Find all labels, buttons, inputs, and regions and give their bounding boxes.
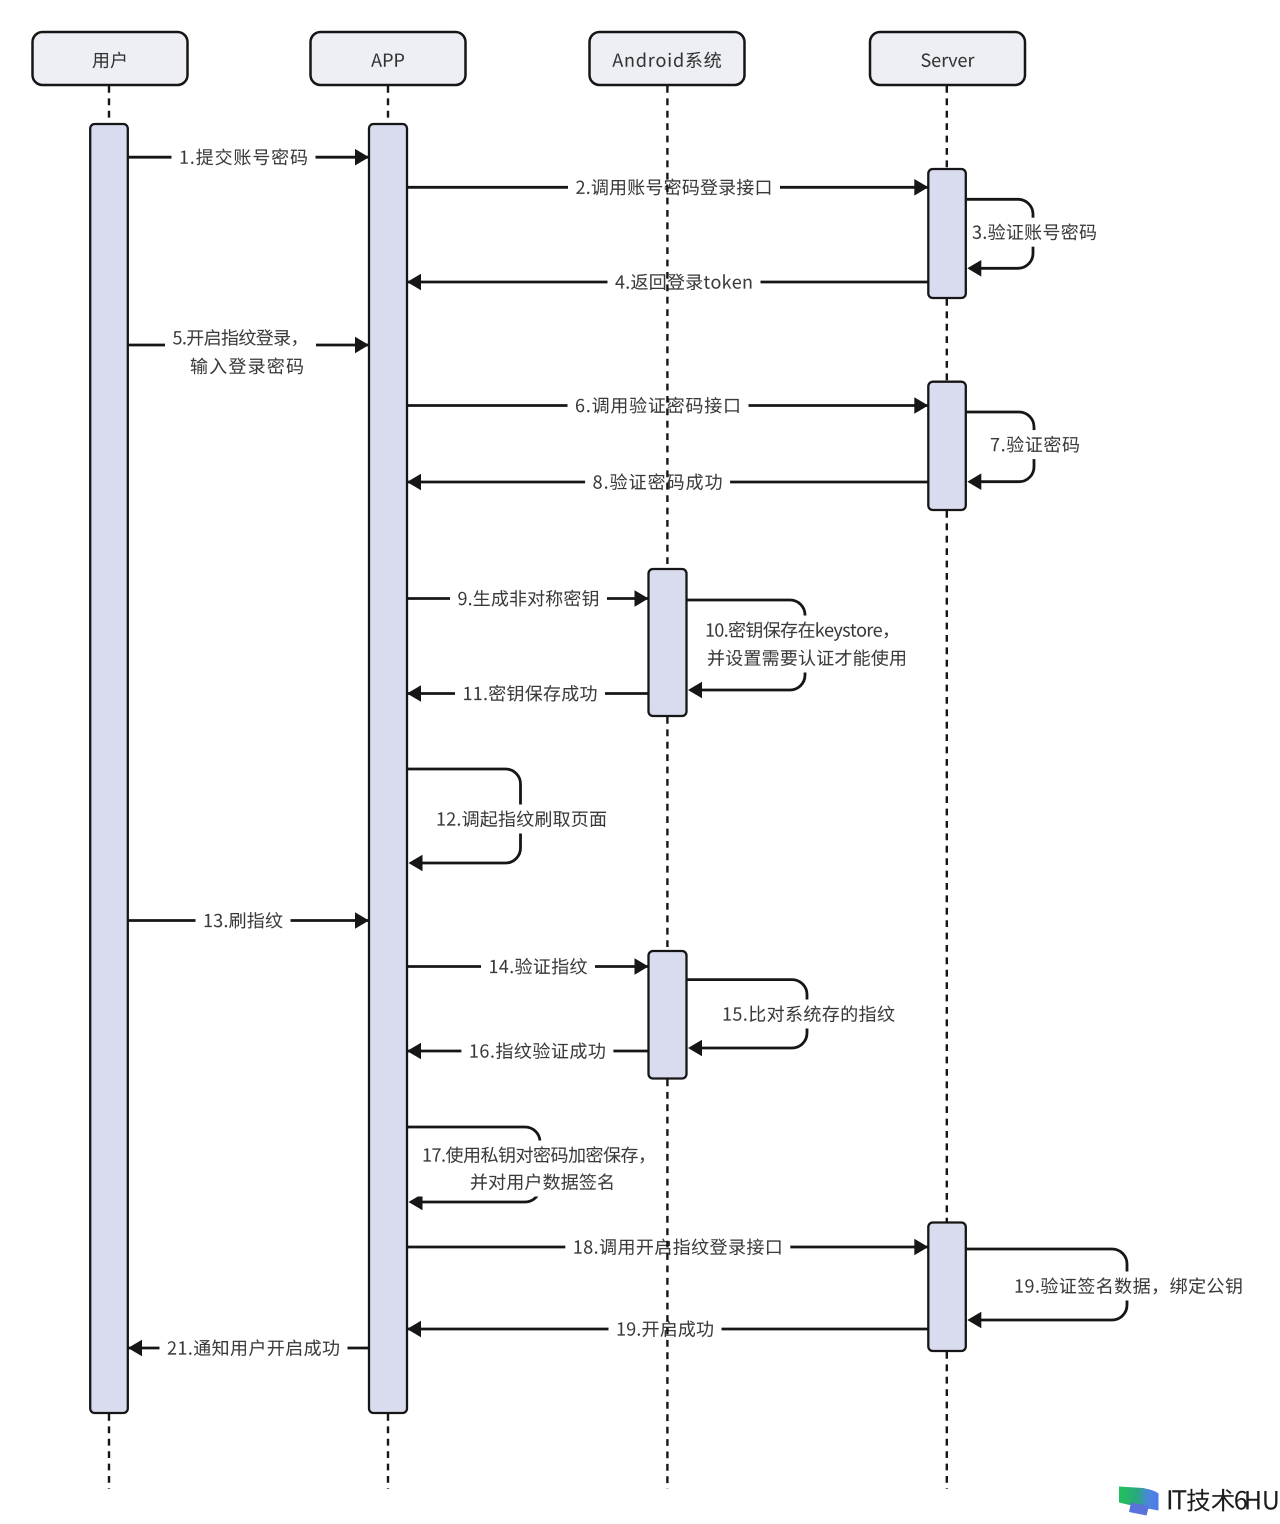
message 13.刷指纹 (用户→APP)	[128, 906, 369, 935]
message 14.验证指纹 (APP→Android系统)	[407, 952, 649, 981]
message 11.密钥保存成功 (Android系统→APP)	[407, 679, 649, 708]
self-message 12.调起指纹刷取页面 (APP)	[407, 769, 613, 871]
lifeline Android系统 dashed	[666, 86, 668, 1489]
message 4.返回登录token (Server→APP)	[407, 268, 928, 297]
activation bar Android系统 (fingerprint)	[649, 951, 687, 1079]
message 2.调用账号密码登录接口 (APP→Server)	[407, 173, 928, 202]
message 18.调用开启指纹登录接口 (APP→Server)	[407, 1233, 928, 1262]
activation bar APP	[369, 124, 407, 1413]
lifeline header Android系统	[590, 32, 745, 85]
self-message 7.验证密码 (Server)	[966, 412, 1086, 490]
activation bar 用户	[90, 124, 128, 1413]
lifeline header APP	[311, 32, 466, 85]
message 6.调用验证密码接口 (APP→Server)	[407, 391, 928, 420]
message 16.指纹验证成功 (Android系统→APP)	[407, 1037, 649, 1066]
message 21.通知用户开启成功 (APP→用户)	[128, 1334, 369, 1363]
message 1.提交账号密码 (用户→APP)	[128, 143, 369, 172]
activation bar Server (login)	[928, 169, 966, 298]
self-message 10.密钥保存在keystore，并设置需要认证才能使用 (Android系统)	[687, 600, 914, 698]
message 19.开启成功 (Server→APP)	[407, 1315, 928, 1344]
self-message 19.验证签名数据，绑定公钥 (Server)	[966, 1249, 1249, 1328]
lifeline Server dashed	[946, 86, 948, 1489]
watermark logo text IT技术6HU	[1169, 1489, 1278, 1512]
self-message 15.比对系统存的指纹 (Android系统)	[687, 980, 902, 1057]
lifeline header Server	[870, 32, 1025, 85]
lifeline 用户 dashed	[108, 86, 110, 1489]
activation bar Server (bind key)	[928, 1223, 966, 1352]
message 8.验证密码成功 (Server→APP)	[407, 468, 928, 497]
watermark logo icon (6HU)	[1119, 1487, 1159, 1516]
lifeline APP dashed	[387, 86, 389, 1489]
self-message 3.验证账号密码 (Server)	[966, 199, 1103, 276]
activation bar Android系统 (keystore)	[649, 569, 687, 716]
activation bar Server (verify pwd)	[928, 382, 966, 510]
lifeline header 用户	[33, 32, 188, 85]
self-message 17.使用私钥对密码加密保存，并对用户数据签名 (APP)	[407, 1127, 662, 1210]
message 9.生成非对称密钥 (APP→Android系统)	[407, 584, 649, 613]
message 5.开启指纹登录，输入登录密码 (用户→APP)	[128, 323, 369, 381]
